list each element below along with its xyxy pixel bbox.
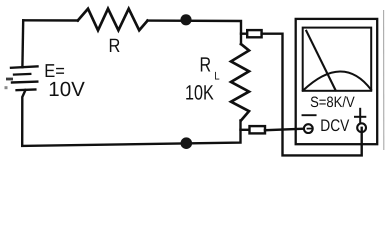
svg-text:R: R — [109, 36, 121, 57]
svg-text:S=8K/V: S=8K/V — [310, 94, 355, 111]
svg-text:R: R — [200, 54, 212, 77]
svg-text:10V: 10V — [48, 78, 85, 101]
svg-text:10K: 10K — [185, 81, 214, 104]
svg-text:DCV: DCV — [320, 116, 350, 135]
svg-text:L: L — [214, 71, 219, 83]
